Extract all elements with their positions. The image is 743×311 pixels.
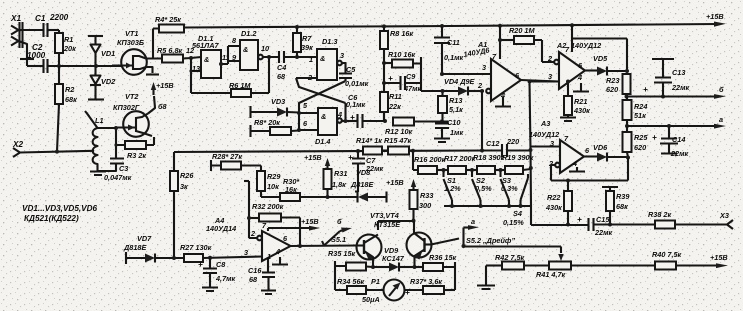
svg-text:68к: 68к: [65, 95, 77, 104]
wire VT3 VT4 collectors: [378, 219, 416, 233]
svg-text:S4: S4: [513, 209, 522, 218]
svg-text:R26: R26: [180, 171, 194, 180]
resistor R20: [498, 26, 554, 62]
svg-text:КТ315Е: КТ315Е: [374, 220, 401, 229]
svg-text:Д818Е: Д818Е: [123, 243, 147, 252]
svg-text:X3: X3: [719, 211, 729, 220]
capacitor C4: [263, 51, 317, 81]
wire S5.2 to R41 wiper: [464, 247, 562, 254]
switch S3: [501, 170, 519, 206]
svg-text:0,1мк: 0,1мк: [444, 53, 464, 62]
resistor R34: [335, 271, 383, 294]
svg-text:R24: R24: [634, 102, 647, 111]
svg-text:13: 13: [192, 64, 200, 73]
svg-text:VD3: VD3: [271, 97, 285, 106]
svg-text:S5.2 „Дрейф”: S5.2 „Дрейф”: [466, 236, 515, 245]
wire VT2 gate vertical: [114, 126, 118, 158]
svg-text:R11: R11: [389, 92, 402, 101]
capacitor C8: [198, 258, 236, 291]
svg-text:140УД12: 140УД12: [529, 130, 559, 139]
connector X2: [12, 140, 23, 157]
resistor R17: [444, 154, 477, 174]
resistor R25: [623, 126, 649, 158]
capacitor C2: [27, 43, 48, 73]
svg-text:R12 10к: R12 10к: [385, 127, 413, 136]
zener VD8: [328, 168, 387, 203]
wire input node: [48, 64, 124, 68]
resistor R13: [438, 91, 463, 121]
svg-text:R3 2к: R3 2к: [127, 151, 146, 160]
wire X2 long rail: [20, 149, 484, 154]
resistor R19: [502, 153, 534, 174]
svg-text:&: &: [320, 54, 325, 63]
resistor R35: [328, 249, 375, 271]
svg-text:430к: 430к: [573, 106, 590, 115]
svg-text:VD1: VD1: [101, 49, 115, 58]
svg-text:+15В: +15В: [706, 12, 724, 21]
svg-text:S5.1: S5.1: [331, 235, 346, 244]
svg-text:R8 16к: R8 16к: [390, 29, 413, 38]
diode VD4: [421, 77, 484, 96]
op-amp A4 140UD14: [206, 216, 291, 261]
switch S4: [503, 174, 528, 227]
node b arrow: [337, 217, 352, 233]
wire A4 output: [291, 244, 358, 248]
svg-text:А3: А3: [540, 119, 550, 128]
svg-text:VD5: VD5: [593, 54, 608, 63]
diode VD3: [251, 97, 300, 118]
svg-text:С10: С10: [447, 118, 460, 127]
svg-text:R10 16к: R10 16к: [388, 50, 416, 59]
resistor R30*: [280, 177, 327, 201]
resistor R14*: [356, 136, 382, 155]
svg-text:10к: 10к: [267, 182, 279, 191]
svg-text:R38 2к: R38 2к: [648, 210, 671, 219]
svg-text:VD8: VD8: [356, 168, 371, 177]
resistor R40: [652, 250, 728, 270]
svg-text:561ЛА7: 561ЛА7: [192, 41, 219, 50]
svg-text:КП303Б: КП303Б: [117, 38, 144, 47]
svg-text:R23: R23: [606, 76, 619, 85]
svg-text:Р1: Р1: [371, 277, 380, 286]
svg-text:R16 200к: R16 200к: [414, 155, 446, 164]
svg-text:+: +: [577, 215, 582, 224]
inductor L1: [85, 111, 116, 171]
resistor R33: [386, 178, 433, 221]
svg-text:С15: С15: [596, 215, 610, 224]
svg-text:5,1к: 5,1к: [449, 105, 463, 114]
potentiometer R41: [536, 254, 655, 279]
svg-text:+: +: [388, 74, 393, 83]
gate D1.4: [303, 101, 342, 146]
wire A2 feedback box: [572, 25, 627, 71]
svg-text:3: 3: [340, 51, 344, 60]
svg-text:+: +: [198, 260, 203, 269]
svg-text:R28* 27к: R28* 27к: [212, 152, 242, 161]
svg-text:430к: 430к: [545, 203, 562, 212]
capacitor C9: [384, 72, 422, 93]
resistor R27: [180, 243, 262, 262]
svg-text:R39: R39: [616, 192, 630, 201]
svg-text:4: 4: [577, 73, 582, 82]
svg-text:С13: С13: [672, 68, 685, 77]
wire D1.1 out to D1.2: [219, 36, 240, 66]
transistor VT2 KP302G: [113, 92, 152, 137]
svg-text:R15 47к: R15 47к: [384, 136, 412, 145]
transistor labels VT3 VT4: [370, 211, 401, 229]
svg-text:VT2: VT2: [125, 92, 138, 101]
wire A1 output: [521, 79, 559, 206]
meter P1: [362, 277, 423, 304]
svg-text:&: &: [243, 45, 248, 54]
svg-text:620: 620: [606, 85, 618, 94]
diode VD1: [88, 36, 115, 66]
switch S2: [472, 170, 492, 206]
svg-text:VD4 Д9Е: VD4 Д9Е: [444, 77, 476, 86]
svg-text:D1.2: D1.2: [241, 29, 256, 38]
resistor R12: [385, 118, 444, 137]
resistor R29: [257, 171, 281, 197]
transistor VT1 KP303B: [112, 29, 159, 75]
diode VD9: [373, 246, 417, 272]
svg-text:4,7мк: 4,7мк: [215, 274, 236, 283]
svg-text:VD6: VD6: [593, 143, 608, 152]
svg-text:+: +: [652, 133, 657, 142]
svg-text:С1: С1: [35, 14, 46, 23]
resistor R36: [415, 253, 457, 290]
svg-text:+15В: +15В: [304, 153, 322, 162]
svg-text:С16: С16: [248, 266, 262, 275]
resistor R2: [55, 66, 77, 152]
svg-text:X1: X1: [10, 14, 21, 23]
svg-text:б: б: [337, 217, 342, 226]
capacitor C3: [98, 159, 132, 183]
svg-text:12: 12: [186, 46, 194, 55]
svg-text:R2: R2: [65, 85, 74, 94]
wire +15V top rail: [184, 12, 726, 29]
svg-text:51к: 51к: [634, 111, 646, 120]
svg-text:1мк: 1мк: [450, 128, 463, 137]
svg-text:10: 10: [261, 44, 269, 53]
svg-text:С14: С14: [672, 135, 685, 144]
svg-text:б: б: [719, 85, 724, 94]
switch S1: [444, 170, 462, 206]
diode VD5: [585, 54, 629, 76]
svg-text:3: 3: [244, 248, 248, 257]
svg-text:+: +: [350, 113, 355, 122]
resistor R8 16k: [380, 26, 413, 123]
svg-text:R22: R22: [547, 193, 560, 202]
resistor R15: [382, 136, 413, 155]
svg-text:20к: 20к: [63, 44, 76, 53]
resistor R18: [473, 153, 505, 174]
svg-text:0,01мк: 0,01мк: [345, 79, 369, 88]
svg-text:КС147: КС147: [382, 254, 405, 263]
svg-text:1: 1: [309, 55, 313, 64]
svg-text:R35 15к: R35 15к: [328, 249, 356, 258]
svg-text:R1: R1: [64, 35, 73, 44]
resistor R38: [648, 210, 727, 229]
svg-text:R4* 25к: R4* 25к: [155, 15, 181, 24]
resistor R5: [157, 46, 201, 63]
capacitor C5: [339, 63, 369, 88]
svg-text:С12: С12: [486, 139, 499, 148]
svg-text:R36 15к: R36 15к: [429, 253, 457, 262]
resistor R26: [170, 152, 194, 258]
op-amp A1 140UD6: [463, 26, 521, 107]
svg-text:R40 7,5к: R40 7,5к: [652, 250, 682, 259]
svg-text:R19 390к: R19 390к: [502, 153, 534, 162]
svg-text:R33: R33: [420, 191, 433, 200]
svg-text:R37* 3,6к: R37* 3,6к: [410, 277, 442, 286]
svg-text:б8: б8: [158, 102, 168, 111]
svg-text:3: 3: [482, 63, 486, 72]
svg-text:VD1...VD3,VD5,VD6: VD1...VD3,VD5,VD6: [22, 204, 98, 213]
switch S5.1: [322, 231, 346, 246]
capacitor C15: [531, 215, 655, 237]
svg-text:22к: 22к: [388, 102, 401, 111]
power +15V arrow at VT2 drain: [148, 81, 174, 114]
svg-text:L1: L1: [95, 116, 104, 125]
resistor R11: [380, 92, 402, 121]
svg-text:R27 130к: R27 130к: [180, 243, 212, 252]
capacitor C14: [652, 124, 689, 158]
svg-text:С3: С3: [119, 164, 128, 173]
svg-text:0,047мк: 0,047мк: [104, 173, 132, 182]
note diodes types: [22, 204, 98, 223]
svg-text:1,8к: 1,8к: [332, 180, 346, 189]
capacitor C10: [434, 118, 463, 142]
svg-text:22мк: 22мк: [670, 149, 689, 158]
ground L1: [90, 172, 106, 176]
svg-text:КД521(КД522): КД521(КД522): [24, 214, 79, 223]
svg-text:D1.3: D1.3: [322, 37, 337, 46]
resistor R10: [384, 50, 421, 91]
svg-text:R13: R13: [449, 96, 462, 105]
svg-text:39к: 39к: [301, 43, 313, 52]
svg-text:620: 620: [634, 143, 646, 152]
diode VD6: [584, 143, 630, 162]
svg-text:68: 68: [249, 275, 258, 284]
svg-text:3: 3: [548, 72, 552, 81]
resistor R1: [55, 30, 76, 66]
diode VD7: [123, 234, 184, 264]
resistor R6: [191, 55, 271, 97]
svg-text:+15В: +15В: [301, 217, 319, 226]
svg-text:С9: С9: [406, 72, 416, 81]
svg-text:&: &: [204, 55, 209, 64]
svg-text:R31: R31: [334, 169, 347, 178]
wire node a: [627, 115, 726, 129]
wire A1 pin3: [442, 73, 491, 75]
svg-text:47мк: 47мк: [403, 84, 422, 93]
resistor R24: [623, 97, 648, 129]
transistor VT4: [407, 233, 432, 268]
svg-text:R29: R29: [267, 172, 281, 181]
svg-text:R41 4,7к: R41 4,7к: [536, 270, 566, 279]
svg-text:D1.4: D1.4: [315, 137, 330, 146]
resistor R32: [244, 181, 300, 246]
svg-text:3к: 3к: [180, 182, 188, 191]
resistor R3: [116, 137, 154, 160]
resistor R16: [413, 151, 448, 175]
diode VD2: [88, 66, 115, 100]
svg-text:VD7: VD7: [137, 234, 152, 243]
svg-text:R21: R21: [574, 97, 587, 106]
svg-text:22мк: 22мк: [594, 228, 613, 237]
svg-text:50μА: 50μА: [362, 295, 380, 304]
svg-text:140УД14: 140УД14: [206, 224, 236, 233]
ground A4 pin5: [272, 257, 288, 265]
resistor R4: [146, 15, 184, 59]
svg-text:С8: С8: [216, 260, 226, 269]
svg-text:22мк: 22мк: [671, 83, 690, 92]
svg-text:С5: С5: [346, 65, 356, 74]
svg-text:R32 200к: R32 200к: [252, 202, 284, 211]
resistor R22: [545, 181, 572, 227]
transistor VT3: [357, 235, 382, 268]
svg-text:68: 68: [277, 72, 286, 81]
svg-text:2200: 2200: [49, 13, 69, 22]
gate D1.1: [186, 34, 230, 78]
wire pin2 feedback vertical: [480, 91, 484, 153]
svg-text:4: 4: [572, 159, 577, 168]
power +15V arrow at A4 pin7: [268, 217, 320, 231]
wire node b: [627, 85, 727, 99]
svg-text:0,15%: 0,15%: [503, 218, 524, 227]
wire A3 feedback box: [551, 158, 628, 183]
capacitor C13: [643, 59, 690, 99]
resistor R7: [293, 27, 313, 57]
resistor R21: [560, 80, 590, 122]
resistor R39: [602, 187, 630, 227]
svg-text:R34 56к: R34 56к: [337, 277, 365, 286]
wire flipflop cross: [296, 78, 346, 132]
svg-text:+15В: +15В: [386, 178, 404, 187]
connector X3: [719, 211, 733, 229]
svg-text:1000: 1000: [27, 51, 46, 60]
svg-text:а: а: [471, 217, 475, 226]
svg-text:R25: R25: [634, 133, 648, 142]
svg-text:R18 390к: R18 390к: [473, 153, 505, 162]
svg-text:2: 2: [477, 81, 482, 90]
capacitor C16: [248, 259, 276, 294]
resistor R23: [606, 74, 631, 99]
capacitor C6: [342, 93, 385, 128]
svg-text:R7: R7: [302, 34, 312, 43]
wire to D1.1 pin13: [189, 58, 201, 93]
gate D1.3: [307, 37, 344, 82]
resistor R8*: [251, 118, 300, 137]
resistor R42: [477, 253, 549, 289]
svg-text:R17 200к: R17 200к: [444, 154, 476, 163]
svg-text:а: а: [719, 115, 723, 124]
op-amp A2 140UD12: [530, 41, 602, 92]
svg-text:68к: 68к: [616, 202, 628, 211]
capacitor C12: [482, 137, 531, 157]
svg-text:+15В: +15В: [710, 253, 728, 262]
svg-text:R20 1М: R20 1М: [509, 26, 535, 35]
svg-text:0,1мк: 0,1мк: [346, 100, 366, 109]
svg-text:R8* 20к: R8* 20к: [254, 118, 280, 127]
capacitor C11: [434, 26, 464, 76]
capacitor C7: [348, 151, 384, 193]
resistor R37*: [410, 277, 455, 294]
svg-text:&: &: [321, 112, 326, 121]
capacitor C1: [35, 13, 69, 37]
svg-text:VT3,VT4: VT3,VT4: [370, 211, 399, 220]
svg-text:С4: С4: [277, 63, 286, 72]
node a arrow and S4 tap: [462, 217, 480, 248]
gate D1.2: [240, 29, 269, 70]
svg-text:+15В: +15В: [156, 81, 174, 90]
svg-text:4: 4: [275, 247, 280, 256]
svg-text:2: 2: [250, 229, 255, 238]
svg-text:2: 2: [547, 54, 552, 63]
svg-text:+: +: [643, 85, 648, 94]
svg-text:140УД12: 140УД12: [571, 41, 601, 50]
svg-text:Д818Е: Д818Е: [350, 180, 374, 189]
svg-text:VT1: VT1: [125, 29, 138, 38]
svg-text:С11: С11: [447, 38, 460, 47]
resistor R31: [304, 153, 347, 199]
svg-text:VD2: VD2: [101, 77, 115, 86]
svg-text:R14* 1к: R14* 1к: [356, 136, 382, 145]
svg-text:300: 300: [419, 201, 431, 210]
connector X1: [10, 14, 43, 66]
op-amp A3 140UD12: [529, 119, 590, 173]
switch S5.2: [431, 236, 515, 245]
wire trim bus: [444, 204, 531, 225]
resistor R28*: [211, 152, 261, 171]
